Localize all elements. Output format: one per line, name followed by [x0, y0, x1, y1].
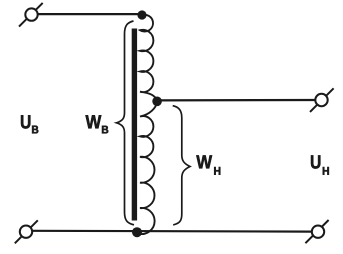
terminal X2 (mid-right output) — [310, 88, 334, 112]
node winding top (junction dot) — [137, 10, 146, 19]
terminal X4 (bottom-right) — [305, 220, 328, 243]
winding upper section (turns above tap) — [140, 15, 157, 101]
wire tap to X2 — [156, 99, 316, 102]
label U_H — [311, 155, 320, 168]
core bar of winding — [132, 29, 137, 221]
wire bottom (X3 to X4) — [32, 230, 312, 233]
node winding bottom (junction dot) — [132, 227, 142, 237]
node tap (junction dot, winding tap to U_H) — [152, 97, 162, 107]
brace W_B (spans full winding, left side) — [117, 21, 135, 225]
label U_B — [21, 115, 30, 128]
label W_B — [86, 115, 102, 128]
label W_H — [196, 155, 212, 168]
winding lower section (W_H turns below tap) — [137, 102, 157, 234]
terminal X1 (top-left input) — [19, 3, 43, 27]
brace W_H (spans lower winding, right side) — [173, 106, 190, 225]
terminal X3 (bottom-left) — [15, 220, 38, 243]
wire top (X1 to winding top) — [37, 13, 142, 15]
